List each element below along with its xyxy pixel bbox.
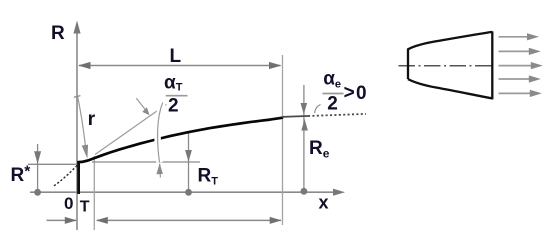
R_T dot on axis	[185, 189, 192, 196]
small nozzle sketch: outline	[408, 32, 492, 79]
nozzle contour (thick)	[78, 118, 282, 162]
alpha_e leader hook	[315, 105, 321, 114]
svg-text:0: 0	[356, 83, 367, 104]
svg-text:T: T	[80, 199, 90, 216]
exhaust arrow 4	[499, 78, 530, 80]
tangent line at T	[95, 104, 167, 154]
svg-text:r: r	[88, 108, 96, 130]
r leader arrow	[78, 97, 86, 148]
svg-text:2: 2	[327, 94, 338, 115]
R* dot on axis	[34, 189, 41, 196]
R_e dot on axis	[301, 188, 308, 195]
bottom dimension T-exit	[97, 219, 281, 221]
R_e dimension line	[303, 85, 305, 191]
R_T level line	[92, 161, 200, 163]
small nozzle sketch: exit plane	[491, 31, 493, 99]
dimension L	[79, 65, 281, 67]
bottom dimension 0-T (outside arrows)	[47, 219, 77, 221]
R* dimension arrow	[37, 144, 39, 192]
exhaust arrow 5	[499, 92, 531, 94]
throat vertical segment (black)	[77, 162, 80, 195]
svg-text:R: R	[51, 23, 65, 44]
angle arc	[158, 103, 163, 163]
exhaust arrow 1	[499, 36, 529, 38]
svg-text:>: >	[344, 83, 355, 104]
convergent contour (dashed)	[54, 165, 78, 186]
axis x (horizontal)	[30, 191, 334, 193]
r leader tick on axis	[74, 96, 81, 98]
T station line	[93, 156, 95, 230]
svg-text:0: 0	[64, 194, 73, 213]
R* level line	[28, 163, 78, 165]
svg-text:2: 2	[168, 96, 179, 117]
R_T dimension arrow	[188, 131, 190, 192]
exit station line	[282, 55, 284, 225]
alpha_T leader arrow	[136, 98, 146, 110]
axis R (vertical)	[76, 32, 78, 230]
exhaust arrow 2	[499, 50, 530, 52]
exit extension (dotted)	[282, 115, 308, 118]
svg-text:L: L	[170, 46, 182, 67]
small nozzle sketch: centerline	[399, 65, 493, 67]
exhaust arrow 3	[499, 65, 532, 67]
svg-text:x: x	[319, 193, 329, 213]
angle arc end arrow	[159, 164, 162, 178]
